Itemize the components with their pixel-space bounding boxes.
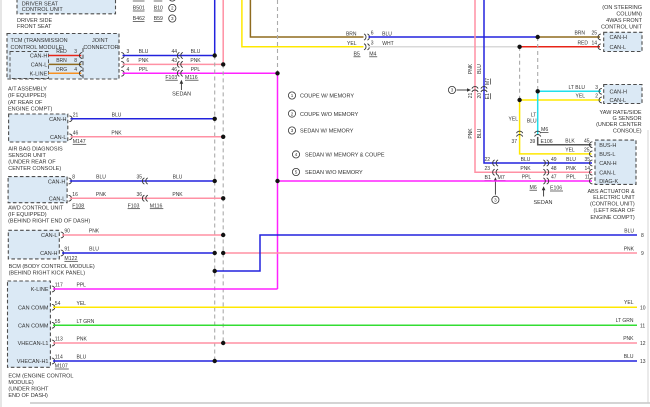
svg-text:CAN-H: CAN-H (48, 179, 65, 185)
wire YEL vertical to connector 37 (519, 100, 521, 137)
svg-text:ELECTRIC UNIT: ELECTRIC UNIT (593, 195, 635, 201)
connector B1/M7 CAN-H row (493, 160, 498, 166)
connector B1/M7 CAN-L row (493, 169, 498, 175)
label 54 YEL (55, 301, 86, 307)
svg-text:20: 20 (477, 93, 483, 99)
wire PNK vertical lower (475, 92, 592, 172)
svg-text:CAN-H: CAN-H (49, 117, 66, 123)
wire RED to 4WAS CAN-L (520, 46, 600, 48)
bus dashed link WHT-YEL (519, 47, 521, 100)
svg-text:23: 23 (484, 166, 490, 172)
svg-text:BUS-H: BUS-H (599, 143, 616, 149)
svg-text:BRN: BRN (346, 31, 357, 37)
svg-text:55: 55 (55, 319, 61, 325)
svg-text:CAN-L: CAN-L (31, 63, 48, 69)
svg-text:BLU: BLU (139, 49, 149, 55)
left page edge line (0, 0, 2, 407)
wire ORG TCM K-LINE to joint connector (49, 72, 82, 74)
svg-text:CAN COMM: CAN COMM (18, 306, 49, 312)
svg-text:(AT REAR OF: (AT REAR OF (8, 100, 43, 106)
wire LT BLU vertical to connector 39 (537, 91, 539, 134)
4WAS pin bracket CAN-L (598, 44, 601, 50)
svg-text:SEDAN: SEDAN (534, 200, 553, 206)
svg-text:46: 46 (73, 131, 79, 137)
svg-text:SEDAN W/O MEMORY: SEDAN W/O MEMORY (305, 170, 363, 176)
svg-text:BLU: BLU (112, 113, 122, 119)
svg-text:(IF EQUIPPED): (IF EQUIPPED) (8, 212, 47, 218)
junction LT BLU yaw (536, 89, 540, 93)
junction BCM CAN-H (213, 251, 217, 255)
svg-text:3: 3 (74, 49, 77, 55)
ECM pin brackets (52, 286, 55, 364)
connector 37 (517, 131, 523, 136)
svg-text:43: 43 (171, 58, 177, 64)
svg-text:YAW RATE/SIDE: YAW RATE/SIDE (600, 110, 642, 116)
svg-text:YEL: YEL (509, 117, 519, 123)
connector F103/M116 AWD CAN-L (142, 195, 147, 201)
BCM location note (9, 264, 95, 277)
label 117 PPL (55, 283, 86, 289)
svg-text:K-LINE: K-LINE (30, 72, 48, 78)
svg-text:46: 46 (171, 67, 177, 73)
bus dashed link BLU-LTBLU (537, 37, 539, 91)
wire PPL ECM K-LINE to K-line bus (53, 288, 278, 290)
yaw rate sensor box (604, 85, 642, 104)
svg-text:48: 48 (551, 166, 557, 172)
wire LT BLU to yaw CAN-H (538, 90, 601, 92)
svg-text:45: 45 (584, 138, 590, 144)
label B5 M4 (354, 51, 378, 57)
svg-text:22: 22 (484, 157, 490, 163)
junction BCM CAN-L (221, 233, 225, 237)
label 113 PNK (55, 337, 88, 343)
wire BRN to 4WAS CAN-H (538, 36, 600, 38)
svg-text:BLU: BLU (173, 175, 183, 181)
wire BLU air bag CAN-H to bus (71, 118, 215, 120)
BCM pin bracket CAN-L (61, 232, 64, 238)
bus dashed CAN-L vertical (222, 64, 224, 343)
wire BLU AWD CAN-H to bus (70, 180, 215, 182)
svg-text:3: 3 (127, 49, 130, 55)
svg-text:BLU: BLU (77, 355, 87, 361)
wire PNK from driver seat down to CAN-L bus (222, 0, 224, 64)
legend 5 sedan w/o memory (292, 168, 363, 176)
svg-text:TCM (TRANSMISSION: TCM (TRANSMISSION (11, 38, 68, 44)
wire YEL from driver seat down then right (242, 0, 364, 47)
svg-text:(BEHIND RIGHT END OF DASH): (BEHIND RIGHT END OF DASH) (8, 219, 90, 225)
svg-text:SENSOR UNIT: SENSOR UNIT (8, 153, 46, 159)
TCM pin box (10, 52, 49, 79)
svg-text:CAN-L: CAN-L (50, 135, 67, 141)
label BRN YEL at B5/M4 (346, 31, 357, 46)
svg-text:CAN-L: CAN-L (41, 233, 58, 239)
svg-text:ENGINE COMPT): ENGINE COMPT) (590, 215, 634, 221)
wire BRN from driver seat down then right (250, 0, 363, 37)
junction PPL to ABS (275, 179, 279, 183)
wire PNK branch to right edge (223, 252, 637, 254)
svg-text:PNK: PNK (520, 166, 531, 172)
label 6 BLU (371, 31, 393, 38)
wire PNK air bag CAN-L to bus (71, 136, 224, 138)
svg-text:21: 21 (468, 93, 474, 99)
svg-text:BLU: BLU (527, 119, 537, 125)
air bag pin bracket CAN-H (69, 116, 72, 122)
svg-text:CONTROL UNIT: CONTROL UNIT (601, 24, 643, 30)
svg-text:ECM (ENGINE CONTROL: ECM (ENGINE CONTROL (8, 374, 73, 380)
wire PPL K-line vertical (277, 73, 279, 289)
svg-text:1: 1 (291, 93, 294, 98)
label 37 39 E106 (511, 139, 553, 145)
svg-text:CAN-L: CAN-L (610, 45, 627, 51)
svg-text:BLU: BLU (624, 354, 634, 360)
circled 3 with arrow to vertical connector (448, 86, 455, 93)
air bag pin bracket CAN-L (69, 134, 72, 140)
svg-text:(BEHIND RIGHT KICK PANEL): (BEHIND RIGHT KICK PANEL) (9, 271, 86, 277)
label 6 PNK 43 (127, 58, 178, 64)
svg-text:A/T ASSEMBLY: A/T ASSEMBLY (8, 87, 47, 93)
svg-text:FRONT SEAT: FRONT SEAT (17, 24, 52, 30)
svg-text:49: 49 (551, 157, 557, 163)
label BRN 25 (574, 31, 597, 37)
joint connector pin bracket row1 (79, 53, 82, 59)
svg-text:SEDAN: SEDAN (172, 92, 191, 98)
junction VHECAN-L1 bus (221, 341, 225, 345)
svg-text:PPL: PPL (566, 175, 576, 181)
svg-text:PNK: PNK (623, 336, 634, 342)
wire BRN TCM CAN-L to joint connector (49, 63, 82, 65)
svg-text:16: 16 (72, 192, 78, 198)
driver seat control unit label (22, 2, 64, 13)
sedan arrow for F103/M116 (180, 80, 184, 90)
svg-text:BUS-L: BUS-L (599, 152, 615, 158)
svg-text:RED: RED (56, 49, 67, 55)
svg-text:4WAS FRONT: 4WAS FRONT (606, 18, 642, 24)
svg-text:113: 113 (55, 337, 63, 343)
svg-text:BRN: BRN (56, 58, 67, 64)
svg-text:2: 2 (291, 111, 294, 116)
label BLK 45 (565, 138, 589, 144)
circled 3 with arrow to B1/M7 (494, 177, 498, 194)
svg-text:BLU: BLU (477, 64, 483, 74)
wire BLU vertical lower (484, 92, 592, 163)
svg-text:BCM (BODY CONTROL MODULE): BCM (BODY CONTROL MODULE) (9, 264, 95, 270)
wire BLU branch jog to right edge (215, 235, 637, 271)
wire YEL to yaw CAN-L (520, 99, 601, 101)
wire BLU from driver seat down to CAN-H bus (214, 0, 216, 56)
svg-text:CENTER CONSOLE): CENTER CONSOLE) (8, 166, 61, 172)
connector B5/M4 row2 (364, 44, 369, 50)
TCM label (11, 38, 68, 51)
bottom section divider line (30, 402, 650, 404)
junction AWD CAN-H (213, 179, 217, 183)
label 16 PNK 36 (72, 192, 142, 198)
svg-text:CAN-L: CAN-L (610, 98, 627, 104)
driver side front seat location note (17, 18, 52, 30)
svg-text:8: 8 (641, 233, 644, 239)
svg-text:PNK: PNK (96, 192, 107, 198)
label 90 PNK (64, 229, 99, 235)
svg-text:CAN-H: CAN-H (30, 54, 47, 60)
svg-text:12: 12 (640, 341, 646, 347)
right section divider line (647, 130, 649, 403)
yaw pin bracket CAN-L (599, 97, 602, 103)
svg-text:BLU: BLU (96, 175, 106, 181)
label 8 BLU 35 (72, 175, 142, 181)
wire BLU vertical upper (483, 0, 485, 92)
4WAS location note (601, 5, 643, 30)
legend 2 coupe w/o memory (288, 110, 358, 118)
svg-text:PPL: PPL (77, 283, 87, 289)
junction VHECAN-H1 bus (213, 359, 217, 363)
AWD pin bracket CAN-L (69, 195, 72, 201)
svg-text:6: 6 (127, 58, 130, 64)
svg-text:(UNDER REAR OF: (UNDER REAR OF (8, 160, 56, 166)
joint connector label (83, 38, 118, 51)
svg-text:9: 9 (641, 251, 644, 257)
label 46 PNK (73, 131, 123, 137)
joint connector output bracket row3 (121, 70, 124, 76)
svg-text:RED: RED (577, 41, 588, 47)
driver seat control unit box (cut at top) (17, 0, 116, 14)
ECM box (8, 281, 51, 367)
svg-text:6: 6 (371, 31, 374, 37)
svg-text:CAN-H: CAN-H (40, 251, 57, 257)
svg-text:PPL: PPL (191, 67, 201, 73)
svg-text:8: 8 (72, 175, 75, 181)
svg-text:PPL: PPL (522, 175, 532, 181)
legend 4 sedan w/ memory & coupe (292, 151, 384, 159)
connector M6/E106 CAN-H row (543, 160, 548, 166)
yaw location note (596, 110, 642, 134)
svg-text:4: 4 (127, 67, 130, 73)
svg-text:BLU: BLU (382, 31, 392, 37)
svg-text:PNK: PNK (624, 246, 635, 252)
wire RED TCM CAN-H to joint connector (49, 55, 82, 57)
svg-text:ORG: ORG (56, 67, 68, 73)
wire BLU B5/M4 to 4WAS junction (369, 36, 538, 38)
svg-text:117: 117 (55, 283, 63, 289)
svg-text:WHT: WHT (382, 41, 393, 47)
label 21 BLU (73, 113, 122, 119)
svg-text:YEL: YEL (576, 94, 586, 100)
label 3 BLU 44 (127, 49, 178, 55)
junction air bag CAN-H (213, 117, 217, 121)
svg-text:4: 4 (295, 152, 298, 157)
svg-text:CAN COMM: CAN COMM (18, 324, 49, 330)
BCM box (8, 230, 59, 259)
svg-text:8: 8 (74, 58, 77, 64)
svg-text:4: 4 (74, 67, 77, 73)
junction CAN-L bus top (221, 62, 225, 66)
svg-text:13: 13 (640, 359, 646, 365)
svg-text:(ON STEERING: (ON STEERING (602, 5, 642, 11)
svg-text:5: 5 (295, 170, 298, 175)
svg-text:CAN-H: CAN-H (610, 35, 627, 41)
svg-text:3: 3 (171, 16, 174, 21)
svg-text:MODULE): MODULE) (8, 380, 34, 386)
wire PNK joint connector pin6 to CAN-L bus (123, 63, 224, 65)
svg-text:37: 37 (511, 139, 517, 145)
label F103 M116 AWD (128, 203, 164, 209)
svg-text:35: 35 (136, 175, 142, 181)
label YEL 25 (565, 148, 589, 154)
wire PNK BCM CAN-L to bus (62, 234, 223, 236)
svg-text:91: 91 (64, 247, 70, 253)
connector F103/M116 row2 (177, 61, 182, 67)
svg-text:END OF DASH): END OF DASH) (8, 393, 48, 399)
svg-text:3: 3 (291, 128, 294, 133)
svg-text:PNK: PNK (190, 58, 201, 64)
label 49 BLU 35 (551, 157, 590, 163)
svg-text:AWD CONTROL UNIT: AWD CONTROL UNIT (8, 206, 64, 212)
AWD location note (8, 206, 90, 225)
connector ref B501 B10 (2) (133, 6, 163, 12)
svg-text:BLU: BLU (566, 157, 576, 163)
joint connector divider (82, 48, 84, 79)
svg-text:47: 47 (551, 175, 557, 181)
legend 1 coupe w/ memory (288, 92, 354, 100)
svg-text:3: 3 (371, 40, 374, 46)
svg-text:CONNECTOR: CONNECTOR (83, 45, 118, 51)
svg-text:ABS ACTUATOR &: ABS ACTUATOR & (588, 189, 636, 195)
svg-text:BLK: BLK (565, 138, 575, 144)
svg-text:BLU: BLU (521, 157, 531, 163)
label 47 PPL 11 (551, 175, 590, 181)
wire PNK vertical upper (474, 0, 476, 92)
svg-text:(LEFT REAR OF: (LEFT REAR OF (594, 208, 636, 214)
svg-text:114: 114 (55, 355, 63, 361)
junction WHT/RED 4WAS (517, 45, 521, 49)
svg-text:SEDAN W/ MEMORY & COUPE: SEDAN W/ MEMORY & COUPE (305, 153, 385, 159)
junction CAN-L bus to PNK branch right (221, 251, 225, 255)
bus dashed K-line vertical top (277, 0, 279, 73)
svg-text:BLU: BLU (477, 128, 483, 138)
connector F103/M116 row1 (177, 52, 182, 58)
joint connector output bracket row2 (121, 62, 124, 68)
svg-text:CAN-L: CAN-L (599, 170, 616, 176)
air bag location note (8, 146, 63, 172)
label RED 14 (577, 41, 597, 47)
svg-text:CONSOLE): CONSOLE) (613, 128, 642, 134)
svg-text:14: 14 (591, 41, 597, 47)
legend 3 sedan w/ memory (288, 127, 353, 135)
junction BLU/BRN 4WAS (536, 35, 540, 39)
svg-text:LT: LT (531, 112, 536, 118)
connector B5/M4 row1 (364, 34, 369, 40)
svg-text:YEL: YEL (565, 148, 575, 154)
connector vertical BLU (481, 87, 487, 92)
svg-text:YEL: YEL (347, 41, 357, 47)
connector M6/E106 CAN-L row (543, 169, 548, 175)
yaw pin bracket CAN-H (599, 88, 602, 94)
svg-text:CAN-H: CAN-H (599, 161, 616, 167)
ECM location note (8, 374, 73, 400)
air bag diagnosis sensor box (9, 114, 68, 142)
svg-text:36: 36 (136, 192, 142, 198)
joint connector output bracket row1 (121, 53, 124, 59)
svg-text:PNK: PNK (77, 337, 88, 343)
label 48 PNK 14 (551, 166, 590, 172)
junction air bag CAN-L (221, 135, 225, 139)
svg-text:PNK: PNK (89, 229, 100, 235)
svg-text:10: 10 (640, 305, 646, 311)
AWD pin bracket CAN-H (69, 178, 72, 184)
wire LT GRN ECM CAN COMM to right edge (53, 324, 637, 326)
wire PPL joint connector pin4 to K-line bus (123, 72, 278, 74)
svg-text:CONTROL UNIT: CONTROL UNIT (22, 7, 64, 13)
junction CAN-H bus to BLU branch right (213, 269, 217, 273)
junction AWD CAN-L (221, 196, 225, 200)
label 55 LT GRN (55, 319, 95, 325)
sedan arrow M6/E106 (542, 186, 546, 196)
label LT BLU vertical (527, 112, 537, 124)
svg-text:39: 39 (530, 139, 536, 145)
svg-text:BLU: BLU (89, 247, 99, 253)
label M6 E106 below (530, 185, 564, 192)
TCM and joint connector box (7, 34, 119, 80)
svg-text:21: 21 (73, 113, 79, 119)
svg-text:LT GRN: LT GRN (616, 318, 634, 324)
svg-text:K-LINE: K-LINE (31, 287, 49, 293)
junction YEL yaw (517, 98, 521, 102)
svg-text:PPL: PPL (139, 67, 149, 73)
wire BLU BCM CAN-H to bus (62, 252, 215, 254)
svg-text:PNK: PNK (468, 128, 474, 139)
svg-text:(UNDER CENTER: (UNDER CENTER (596, 122, 642, 128)
svg-text:(IF EQUIPPED): (IF EQUIPPED) (8, 93, 47, 99)
svg-text:PNK: PNK (111, 131, 122, 137)
svg-text:3: 3 (595, 85, 598, 91)
svg-text:YEL: YEL (77, 301, 87, 307)
label 114 BLU (55, 355, 87, 361)
svg-text:(CONTROL UNIT): (CONTROL UNIT) (590, 202, 635, 208)
wire PPL K-line to ABS DIAG-K (278, 180, 593, 182)
svg-text:44: 44 (171, 49, 177, 55)
svg-text:3: 3 (451, 88, 454, 93)
svg-text:25: 25 (584, 148, 590, 154)
svg-text:ENGINE COMPT): ENGINE COMPT) (8, 106, 52, 112)
connector F103/M116 row3 (177, 70, 182, 76)
svg-text:PNK: PNK (566, 166, 577, 172)
wire BLU joint connector pin3 to CAN-H bus (123, 55, 215, 57)
svg-text:LT GRN: LT GRN (77, 319, 95, 325)
wire YEL ECM CAN COMM to right edge (53, 306, 637, 308)
wire BLU ECM VHECAN-H1 to right edge (53, 360, 637, 362)
svg-text:3: 3 (494, 198, 497, 203)
wire WHT B5/M4 to 4WAS junction (369, 46, 520, 48)
svg-text:JOINT: JOINT (92, 38, 109, 44)
connector M6/E106 DIAG row (543, 178, 548, 184)
4WAS pin bracket CAN-H (598, 34, 601, 40)
connector 39 (535, 131, 541, 136)
svg-text:COUPE W/ MEMORY: COUPE W/ MEMORY (300, 94, 354, 100)
svg-text:E1: E1 (485, 93, 491, 99)
label B1 M7 (485, 175, 506, 181)
svg-text:BLU: BLU (624, 228, 634, 234)
wire BLK connector 39 to ABS BUS-H (538, 137, 592, 145)
svg-text:LT BLU: LT BLU (569, 85, 586, 91)
A/T assembly note (8, 87, 52, 113)
joint connector pin bracket row2 (79, 62, 82, 68)
label LT BLU 3 (569, 85, 599, 91)
label RED 3 (56, 49, 77, 55)
svg-text:AIR BAG DIAGNOSIS: AIR BAG DIAGNOSIS (8, 146, 63, 152)
svg-text:90: 90 (64, 229, 70, 235)
svg-text:SEDAN W/ MEMORY: SEDAN W/ MEMORY (300, 129, 354, 135)
svg-text:CAN-H: CAN-H (610, 90, 627, 96)
svg-text:PNK: PNK (468, 63, 474, 74)
svg-text:(UNDER RIGHT: (UNDER RIGHT (8, 387, 49, 393)
